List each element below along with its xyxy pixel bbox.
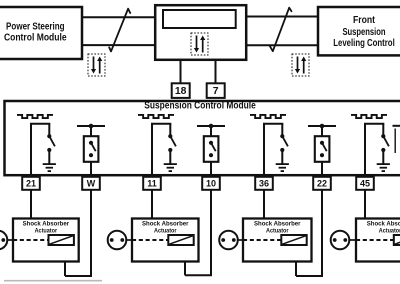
junction dot (22) — [320, 124, 325, 129]
wire: pin 21 to actuator 1 — [30, 190, 32, 219]
svg-text:Actuator: Actuator — [379, 228, 400, 235]
svg-text:W: W — [87, 179, 96, 189]
svg-text:Suspension Control Module: Suspension Control Module — [144, 100, 256, 111]
network bus icon (left) — [88, 54, 105, 76]
switch blade (45) — [383, 136, 389, 146]
wire: bar to relay box (22) — [321, 126, 323, 137]
svg-text:Actuator: Actuator — [266, 228, 289, 235]
wire: bar to relay box (W) — [90, 126, 92, 137]
switch blade (11) — [170, 136, 176, 146]
title Suspension Control Module — [144, 100, 256, 111]
shock absorber actuator box (1) — [13, 219, 79, 262]
label Shock Absorber Actuator (1) — [23, 221, 70, 235]
relay box (10) — [204, 136, 219, 162]
svg-text:11: 11 — [147, 179, 157, 189]
pin 7 — [207, 83, 225, 98]
ground (45) — [377, 164, 390, 171]
svg-text:22: 22 — [317, 179, 327, 189]
svg-text:45: 45 — [360, 179, 370, 189]
svg-text:10: 10 — [206, 179, 216, 189]
svg-text:36: 36 — [259, 179, 269, 189]
network bus icon (right) — [292, 54, 309, 76]
twisted-pair slash (left bus) — [109, 9, 130, 52]
PWM signal icon (45) — [351, 115, 387, 118]
pin 10 — [202, 177, 220, 190]
pin 22 — [313, 177, 331, 190]
PWM signal icon (36) — [250, 115, 286, 118]
svg-text:7: 7 — [213, 86, 219, 97]
wire: relay box to pin W — [90, 162, 92, 176]
display window — [163, 10, 236, 28]
svg-text:Actuator: Actuator — [154, 228, 177, 235]
switch contact top (45) — [381, 134, 385, 138]
supply rail bar (22) — [308, 125, 336, 127]
pin 11 — [143, 177, 161, 190]
ground (36) — [276, 164, 289, 171]
switch blade in box (W) — [91, 143, 96, 151]
label Shock Absorber Actuator (3) — [254, 221, 301, 235]
switch contact bottom in box (W) — [89, 153, 93, 157]
wire: pin 45 to actuator 4 — [364, 190, 366, 219]
supply rail bar (W) — [77, 125, 105, 127]
actuator valve symbol (4) — [394, 235, 400, 245]
module box: Suspension Control Module — [5, 101, 400, 175]
svg-text:21: 21 — [26, 179, 36, 189]
switch contact top in box (22) — [320, 141, 324, 145]
switch blade in box (10) — [211, 143, 216, 151]
wire: relay box to pin 22 — [321, 162, 323, 176]
wire: gateway to pin 7 — [215, 60, 217, 84]
pin W — [82, 177, 100, 190]
wire: pin 22 to actuator 3 return — [296, 190, 323, 276]
supply rail bar (10) — [197, 125, 225, 127]
wire: switch to ground (21) — [48, 150, 50, 164]
label Shock Absorber Actuator (4) — [367, 221, 400, 235]
wire: pin 10 to actuator 2 return — [185, 190, 212, 275]
ground (11) — [164, 164, 177, 171]
actuator valve symbol (1) — [49, 235, 74, 245]
shock absorber actuator box (2) — [132, 219, 199, 262]
switch contact top (21) — [47, 134, 51, 138]
wire: switch to ground (45) — [382, 150, 384, 164]
switch blade (36) — [282, 136, 288, 146]
relay box (22) — [315, 136, 330, 162]
switch blade (21) — [49, 136, 55, 146]
pin 18 — [172, 83, 190, 98]
network bus icon (center) — [191, 33, 208, 55]
wire: elbow from pin 45 to switch — [364, 124, 384, 176]
junction dot (10) — [209, 124, 214, 129]
wire stub: connector 4 to box 4 — [345, 239, 356, 241]
wire: elbow from pin 36 to switch — [263, 124, 283, 176]
separator line (bottom left) — [4, 280, 102, 282]
actuator valve symbol (2) — [168, 235, 193, 245]
switch blade in box (22) — [322, 143, 327, 151]
shock absorber actuator box (4) — [356, 219, 400, 262]
svg-text:Suspension: Suspension — [342, 27, 385, 38]
relay box (W) — [84, 136, 99, 162]
wire: PSCM to gateway module (upper) — [82, 16, 155, 18]
connector circle (3) — [219, 231, 238, 250]
switch contact bottom (36) — [280, 148, 284, 152]
module box: Power Steering Control Module — [0, 7, 82, 59]
svg-text:Front: Front — [353, 15, 376, 26]
ground (21) — [43, 164, 56, 171]
switch contact top (36) — [280, 134, 284, 138]
actuator valve symbol (3) — [281, 235, 306, 245]
switch contact bottom (45) — [381, 148, 385, 152]
switch contact bottom in box (22) — [320, 153, 324, 157]
pin 21 — [22, 177, 40, 190]
pin 36 — [255, 177, 273, 190]
wire: elbow from pin 21 to switch — [30, 124, 50, 176]
switch contact top in box (W) — [89, 141, 93, 145]
wire fragment (right edge) — [394, 129, 396, 154]
svg-text:Leveling Control: Leveling Control — [333, 38, 395, 49]
connector circle (1) — [0, 231, 7, 250]
wire: switch to ground (36) — [281, 150, 283, 164]
dashed control line (4) — [356, 239, 394, 241]
svg-text:Control Module: Control Module — [4, 32, 67, 43]
dashed control line (2) — [132, 239, 168, 241]
twisted-pair slash (right bus) — [270, 8, 292, 52]
svg-text:Actuator: Actuator — [35, 228, 58, 235]
switch contact bottom (21) — [47, 148, 51, 152]
wire stub: connector 3 to box 3 — [234, 239, 244, 241]
switch contact top in box (10) — [209, 141, 213, 145]
connector circle (2) — [108, 231, 127, 250]
dashed control line (3) — [243, 239, 281, 241]
wire stub: connector 2 to box 2 — [122, 239, 132, 241]
switch contact top (11) — [168, 134, 172, 138]
PWM signal icon (11) — [138, 115, 174, 118]
wire: elbow from pin 11 to switch — [151, 124, 171, 176]
dashed control line (1) — [13, 239, 49, 241]
module box: gateway/display module — [155, 5, 246, 60]
svg-text:Power Steering: Power Steering — [6, 21, 65, 32]
wire: pin 36 to actuator 3 — [263, 190, 265, 219]
wire: bar to relay box (10) — [210, 126, 212, 137]
switch contact bottom (11) — [168, 148, 172, 152]
junction dot (W) — [89, 124, 94, 129]
connector circle (4) — [331, 231, 350, 250]
wire stub: connector 1 to box 1 — [3, 239, 14, 241]
wire: PSCM to gateway module (lower) — [82, 44, 155, 46]
wire: pin W to actuator 1 return — [65, 190, 92, 276]
wire: relay box to pin 10 — [210, 162, 212, 176]
wire: switch to ground (11) — [169, 150, 171, 164]
PWM signal icon (21) — [17, 115, 53, 118]
wire: gateway to pin 18 — [180, 60, 182, 84]
wire: gateway to FSLC (lower) — [246, 44, 318, 46]
pin 45 — [356, 177, 374, 190]
label Shock Absorber Actuator (2) — [142, 221, 189, 235]
supply rail bar (partial, right edge) — [393, 125, 400, 127]
wire: pin 11 to actuator 2 — [151, 190, 153, 219]
shock absorber actuator box (3) — [243, 219, 312, 262]
switch contact bottom in box (10) — [209, 153, 213, 157]
wire: gateway to FSLC (upper) — [246, 16, 318, 18]
module box: Front Suspension Leveling Control — [318, 7, 400, 55]
svg-text:18: 18 — [175, 86, 187, 97]
